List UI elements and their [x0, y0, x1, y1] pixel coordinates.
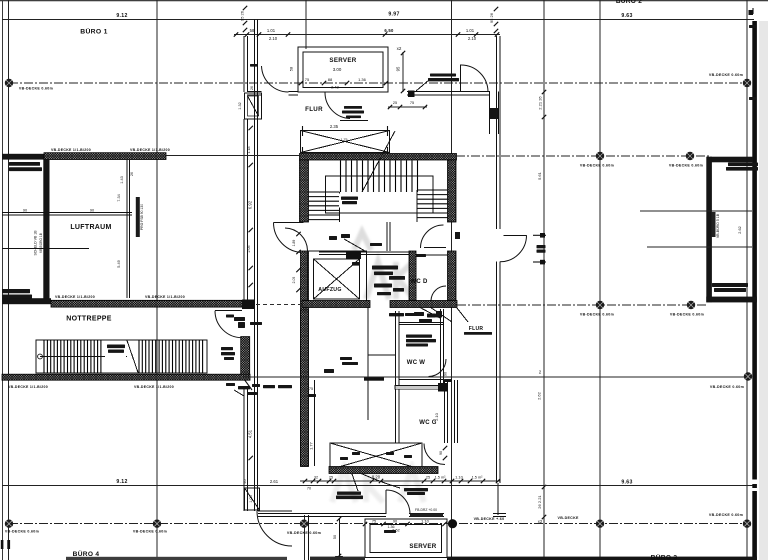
dash reference line y=156 right: [456, 155, 711, 157]
marks left of wc w: [340, 357, 352, 360]
WC W right wall: [440, 309, 442, 387]
svg-text:VB-DECKE 1/1-B/200: VB-DECKE 1/1-B/200: [8, 385, 48, 389]
svg-text:BÜRO 1: BÜRO 1: [80, 27, 107, 36]
svg-text:26 2.21: 26 2.21: [537, 495, 542, 509]
svg-text:1.89: 1.89: [292, 240, 296, 247]
svg-text:5.49: 5.49: [117, 260, 121, 267]
wall band y=300 hatched to x=248: [51, 300, 248, 307]
wc w fixtures: [414, 312, 424, 316]
WC W door arc: [429, 359, 447, 377]
room SERVER top walls: [298, 47, 388, 92]
svg-text:VB-DECKE 0.60m: VB-DECKE 0.60m: [670, 313, 704, 317]
wall band y=374 hatched full: [2, 374, 250, 380]
right room bottom wall y=297: [706, 297, 757, 303]
svg-text:2.10: 2.10: [269, 36, 278, 41]
svg-text:1.10: 1.10: [421, 519, 430, 524]
right room left wall x=707: [706, 157, 712, 303]
svg-text:VB-DECKE 1/1-B/200: VB-DECKE 1/1-B/200: [134, 385, 174, 389]
svg-text:VB-BÜRO 1B: VB-BÜRO 1B: [39, 232, 43, 253]
stair left return flight: [309, 191, 340, 193]
wall cap at x=242: [242, 300, 254, 310]
svg-text:BÜRO 4: BÜRO 4: [73, 549, 100, 558]
svg-text:LUFTRAUM: LUFTRAUM: [70, 224, 111, 231]
stair block right wall hatched: [448, 160, 457, 222]
svg-text:VB-DECKE 0.60m: VB-DECKE 0.60m: [669, 164, 703, 168]
svg-text:25: 25: [329, 476, 333, 480]
svg-text:3.00: 3.00: [333, 67, 342, 72]
room SERVER bottom: [365, 519, 447, 558]
thin line y=377: [242, 376, 748, 378]
svg-text:90: 90: [90, 209, 94, 213]
stair diagonal: [127, 341, 138, 373]
svg-text:1.32: 1.32: [238, 102, 242, 109]
svg-text:SERVER: SERVER: [409, 543, 436, 550]
TROCKENBAU black block lower left: [2, 289, 30, 293]
mini dim y=107 right of flur: [388, 106, 427, 108]
wall y=513-516 left of door: [258, 512, 386, 514]
svg-text:1.77: 1.77: [309, 441, 314, 450]
TROCKENBAU block right: [712, 283, 748, 287]
stair run line with circle: [40, 356, 127, 358]
door arc top right corridor: [461, 65, 488, 92]
door right corridor y=235: [504, 234, 527, 236]
nottreppe door leaf+arc: [215, 310, 242, 312]
svg-text:50: 50: [333, 535, 337, 539]
VB marker circles y=524: [5, 520, 13, 528]
svg-text:2.62: 2.62: [738, 226, 742, 233]
svg-text:VB-DECKE: VB-DECKE: [558, 516, 579, 520]
svg-text:1.18: 1.18: [247, 147, 251, 154]
VB marker circle right (747,83): [743, 79, 751, 87]
wall pair x=244/258 lower section: [243, 338, 245, 378]
svg-text:90: 90: [393, 520, 397, 524]
svg-text:75: 75: [305, 77, 310, 82]
svg-text:2.05: 2.05: [247, 246, 251, 253]
door arc below flur: [325, 93, 350, 119]
svg-text:1.5 m²: 1.5 m²: [472, 475, 483, 479]
svg-text:1.01: 1.01: [267, 28, 276, 33]
svg-text:88: 88: [328, 77, 333, 82]
door bottom centre leaf: [385, 490, 387, 514]
svg-text:2.62: 2.62: [537, 391, 542, 400]
svg-text:95 26: 95 26: [240, 10, 245, 21]
left edge bottom bars: [1, 540, 4, 549]
nottreppe stair: [36, 340, 207, 373]
wall top-right corridor y=92: [407, 91, 490, 93]
niche wall right of WC W: [367, 307, 369, 420]
svg-text:VB-DECKE 0.60m: VB-DECKE 0.60m: [580, 313, 614, 317]
grid line vertical x=157: [156, 0, 158, 560]
luftraum right wall thin pair: [126, 160, 128, 298]
left top wall hatched to x=166: [44, 153, 166, 160]
svg-text:FLUR: FLUR: [305, 106, 323, 113]
svg-text:FLUR: FLUR: [469, 326, 484, 332]
WC G door arc: [424, 444, 445, 465]
luftraum h line y=213: [2, 212, 132, 214]
svg-text:VB-DECKE 0.60m: VB-DECKE 0.60m: [133, 530, 167, 534]
room WC W left wall: [395, 311, 397, 443]
grid line vertical left edge: [2, 0, 4, 560]
svg-text:5.61: 5.61: [537, 171, 542, 180]
grid line vertical x=305 lower: [304, 515, 306, 560]
small shaft line left x=317: [314, 380, 316, 466]
stair right return flight: [417, 189, 448, 191]
upper right wall pair x=489.5/498: [489, 92, 491, 135]
svg-text:2.10: 2.10: [434, 412, 439, 421]
dim x=403 right of server: [402, 52, 404, 92]
text 1.18 near wall: [250, 64, 258, 67]
luftraum h line y=248: [2, 248, 89, 250]
server bottom dim ticks: [363, 522, 367, 526]
hatched wall x=241 y=337-378: [241, 337, 250, 378]
corner wall piece (493,513): [493, 512, 506, 514]
top border line: [0, 0, 768, 2]
dash-dot reference line y=83: [9, 82, 747, 84]
dimension line y=486 full width: [2, 485, 754, 487]
stair bottom left door: [274, 222, 304, 224]
texts below dim line: [337, 492, 361, 495]
svg-text:PRO FSB 90 130: PRO FSB 90 130: [140, 204, 144, 230]
right room line y=247: [647, 246, 752, 248]
svg-text:1.36: 1.36: [388, 525, 395, 529]
core left wall hatched lower: [301, 310, 309, 466]
door arc bottom left: [257, 511, 292, 546]
svg-text:VB-DECKE 1/1-B/200: VB-DECKE 1/1-B/200: [55, 295, 95, 299]
dash-dot reference line y=524: [9, 523, 747, 525]
stair bottom right doors: [421, 225, 444, 248]
elevator AUFZUG shaft: [308, 251, 367, 302]
dash reference line y=305 right: [457, 304, 707, 306]
wall pair x=496/500: [495, 36, 497, 229]
svg-text:25: 25: [426, 476, 430, 480]
corridor door arc left (285,228): [285, 228, 308, 251]
dim inside server y=83: [299, 81, 303, 85]
svg-text:VB-DECKE 0.60m: VB-DECKE 0.60m: [709, 73, 743, 77]
svg-text:9.12: 9.12: [116, 479, 127, 485]
svg-text:1.05: 1.05: [249, 495, 253, 502]
watermark bottom: [332, 468, 424, 502]
thin line y=155 left centre: [166, 154, 300, 156]
svg-text:VB-DECKE 1/1-B/200: VB-DECKE 1/1-B/200: [145, 295, 185, 299]
svg-text:2.05: 2.05: [292, 277, 296, 284]
black post (409,91): [408, 91, 415, 98]
svg-text:NOTTREPPE: NOTTREPPE: [66, 316, 112, 323]
svg-text:7.34: 7.34: [117, 194, 121, 201]
svg-text:1.10: 1.10: [455, 475, 464, 480]
svg-text:75: 75: [372, 520, 376, 524]
svg-text:WC W: WC W: [407, 360, 426, 366]
svg-text:75: 75: [309, 387, 313, 391]
svg-text:6.50: 6.50: [384, 28, 394, 33]
svg-text:VB-DECKE 0.60m: VB-DECKE 0.60m: [287, 531, 321, 535]
left vertical wall x=44: [43, 160, 49, 301]
texts near wall 1.30/1.67: [221, 347, 233, 350]
dimension line top y=19.5: [2, 19, 754, 21]
door arc left of server: [262, 66, 289, 92]
svg-text:95 26: 95 26: [489, 12, 494, 23]
grid line vertical x=747: [746, 0, 748, 560]
window element box (245,93)-(262,119): [245, 93, 262, 119]
grid line vertical x=306 upper: [305, 0, 307, 49]
stair text 19 ST: [105, 341, 126, 357]
svg-text:VB-DECKE 0.60m: VB-DECKE 0.60m: [580, 164, 614, 168]
svg-text:2.35: 2.35: [330, 124, 339, 129]
grid line vertical x=8.7: [8, 0, 10, 560]
core band wall y=301 right part: [390, 301, 457, 308]
svg-text:VB-DECKE 0.60m: VB-DECKE 0.60m: [5, 530, 39, 534]
svg-text:2.10: 2.10: [468, 36, 477, 41]
svg-text:2.21 26: 2.21 26: [538, 96, 543, 110]
luftraum window dark bar: [136, 197, 140, 237]
svg-text:9.12: 9.12: [116, 13, 127, 19]
core right wall hatched: [448, 251, 457, 307]
svg-text:25: 25: [393, 101, 397, 105]
ticks on core left wall: [296, 232, 300, 236]
stair block left wall hatched: [300, 160, 309, 222]
svg-text:BÜRO 3: BÜRO 3: [651, 553, 678, 560]
svg-text:SERVER: SERVER: [329, 57, 356, 64]
elevator door detail: [319, 251, 413, 253]
svg-text:VB-DECKE 0.60m: VB-DECKE 0.60m: [19, 87, 53, 91]
svg-text:VB-DECKE 1/1-B/200: VB-DECKE 1/1-B/200: [51, 148, 91, 152]
WC G right wall: [444, 380, 446, 443]
vent shaft top with X: [301, 131, 390, 153]
wall pair x=244/247 with window box upper: [243, 36, 245, 92]
right room window bar: [712, 212, 716, 237]
svg-text:VB-DECKE 1/1-B/200: VB-DECKE 1/1-B/200: [130, 148, 170, 152]
right room top wall y=157: [710, 157, 753, 163]
long wall pair x=254.5/258: [254, 20, 256, 512]
room WC D: [409, 251, 416, 302]
svg-text:1.01: 1.01: [466, 28, 475, 33]
TROCKENBAU text block left: [9, 162, 40, 166]
left top wall solid y=154: [2, 154, 44, 160]
svg-text:90: 90: [439, 451, 443, 455]
WC D door arc: [431, 286, 446, 301]
wall line left x=339 bottom: [338, 518, 340, 560]
VB marker circle left (9,83): [5, 79, 13, 87]
bottom wall segments: [66, 557, 287, 560]
wall band y=299 solid left: [2, 298, 51, 304]
svg-text:2.42: 2.42: [331, 85, 340, 90]
svg-text:1.43: 1.43: [120, 176, 124, 183]
wall between WC W and WC G: [399, 376, 443, 378]
stair rail rectangle: [326, 176, 434, 213]
texts below flur door: [344, 106, 362, 109]
svg-text:SCHELD VB 1B: SCHELD VB 1B: [34, 230, 38, 256]
wall notches right: [752, 480, 758, 485]
window element box lower (244,488): [245, 488, 260, 510]
svg-text:1.5 m²: 1.5 m²: [435, 475, 446, 479]
svg-text:VB-DECKE 0.60m: VB-DECKE 0.60m: [710, 385, 744, 389]
watermark center: [354, 232, 414, 299]
texts below band near wc w: [389, 313, 404, 316]
wall stub between corridor doors: [386, 222, 388, 251]
WC W interior texts: [406, 335, 432, 338]
svg-text:90: 90: [23, 209, 27, 213]
svg-text:BÜRO 2: BÜRO 2: [616, 0, 642, 5]
right room text block: [728, 163, 758, 167]
svg-text:58: 58: [289, 66, 294, 71]
stair cut diagonal: [362, 131, 395, 192]
dimension line second y=34.5: [234, 34, 500, 36]
grid line vertical x=451.5: [451, 0, 453, 560]
svg-text:6.92: 6.92: [248, 200, 253, 209]
svg-text:x2: x2: [397, 46, 402, 51]
svg-text:VB-DECKE 0.60m: VB-DECKE 0.60m: [709, 513, 743, 517]
core band wall y=301 left part: [302, 301, 370, 308]
stair upper flight treads: [340, 161, 342, 193]
stair text 15 ST: [339, 194, 360, 208]
svg-text:VB-DECKE +.60: VB-DECKE +.60: [474, 517, 505, 521]
svg-text:FB-DRZ +0.00: FB-DRZ +0.00: [415, 508, 437, 512]
svg-text:1.36: 1.36: [358, 77, 367, 82]
junction marks y=380: [226, 383, 235, 386]
ticks along wall x=250: [249, 126, 253, 130]
dimension line y=481 centre: [300, 480, 500, 482]
svg-text:9.63: 9.63: [621, 480, 632, 486]
hatched band below vent shaft: [329, 467, 438, 474]
leader text AB top right: [430, 74, 456, 77]
grid line vertical x=600: [599, 0, 601, 560]
core left wall hatched below stairs: [301, 251, 309, 467]
dashed door line y=304: [249, 304, 302, 306]
svg-text:90: 90: [444, 372, 448, 376]
svg-text:26: 26: [130, 172, 134, 176]
svg-text:9.97: 9.97: [388, 12, 399, 18]
svg-text:70: 70: [307, 487, 311, 491]
svg-text:32: 32: [314, 476, 318, 480]
svg-text:AUFZUG: AUFZUG: [318, 287, 341, 293]
svg-text:WC D: WC D: [410, 279, 428, 285]
vent shaft bottom with X: [330, 443, 422, 470]
middle lobby text smudges: [370, 243, 382, 246]
svg-text:9.63: 9.63: [621, 13, 632, 19]
svg-text:4.51: 4.51: [248, 429, 253, 438]
right margin shading: [759, 21, 768, 560]
marks above elevator: [329, 236, 337, 240]
right room line y=211: [640, 210, 752, 212]
svg-text:VB-BÜRO 5 1B: VB-BÜRO 5 1B: [716, 213, 720, 238]
svg-text:1.75: 1.75: [341, 138, 348, 142]
wall y=513 right segment with FB text: [409, 512, 444, 514]
svg-text:95: 95: [396, 66, 401, 71]
stair block top wall hatched: [300, 154, 457, 161]
right outer wall: [752, 21, 757, 560]
svg-text:2.61: 2.61: [270, 479, 279, 484]
svg-text:75: 75: [410, 101, 414, 105]
svg-text:26: 26: [250, 86, 254, 90]
grid line vertical x=544: [543, 0, 545, 560]
